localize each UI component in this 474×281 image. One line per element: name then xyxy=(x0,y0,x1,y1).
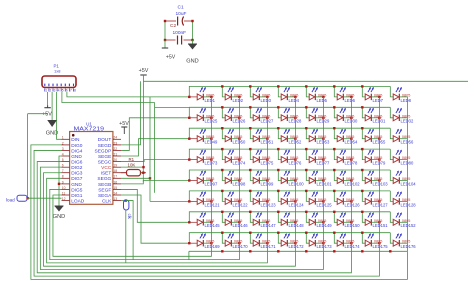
svg-text:0805: 0805 xyxy=(318,93,326,97)
svg-text:LED100: LED100 xyxy=(289,181,305,186)
wire rail drop row 4 col 5 xyxy=(306,149,309,160)
wire rail drop row 4 col 6 xyxy=(334,149,337,160)
svg-text:LED124: LED124 xyxy=(289,202,305,207)
junction column 6 row 5 xyxy=(350,179,352,181)
LED LED100 xyxy=(281,171,295,184)
svg-text:LED147: LED147 xyxy=(261,223,277,228)
LED LED104 xyxy=(393,171,407,184)
svg-text:GND: GND xyxy=(53,214,65,220)
LED LED152 xyxy=(393,212,407,225)
junction column 2 row 6 xyxy=(238,200,240,202)
svg-text:22: 22 xyxy=(113,147,117,151)
svg-text:LED125: LED125 xyxy=(317,202,333,207)
junction column 7 row 8 xyxy=(378,242,380,244)
svg-text:0805: 0805 xyxy=(234,156,242,160)
wire rail drop row 4 col 7 xyxy=(362,149,365,160)
junction column 4 row 5 xyxy=(294,179,296,181)
wire column 5 cathode line xyxy=(322,97,324,251)
wire U1 GND pin9 xyxy=(59,183,62,185)
wire rail drop row 6 col 6 xyxy=(334,191,337,202)
svg-text:0805: 0805 xyxy=(206,198,214,202)
junction rail row 1 col 3 xyxy=(249,85,251,87)
wire row 6 feed xyxy=(150,200,189,202)
LED LED73 xyxy=(189,150,211,163)
wire to +5V (cap block) xyxy=(164,40,166,48)
wire matrix bottom line xyxy=(189,250,408,252)
wire rail drop row 5 col 7 xyxy=(362,170,365,181)
svg-text:DIN: DIN xyxy=(71,137,80,143)
svg-text:0805: 0805 xyxy=(318,177,326,181)
junction column 1 row 5 xyxy=(210,179,212,181)
wire CLK to connector xyxy=(121,200,126,202)
svg-text:0805: 0805 xyxy=(402,177,410,181)
svg-text:1: 1 xyxy=(62,136,64,140)
junction bottom line col 2 xyxy=(221,250,223,252)
LED LED29 xyxy=(309,108,323,121)
node row 3 anode rail xyxy=(189,128,390,139)
junction load net xyxy=(26,197,28,199)
svg-text:0805: 0805 xyxy=(318,156,326,160)
junction rail row 4 col 7 xyxy=(361,148,363,150)
junction rail row 8 col 5 xyxy=(305,232,307,234)
junction column 5 row 1 xyxy=(322,96,324,98)
junction R1 ISET net xyxy=(142,172,144,174)
svg-text:0805: 0805 xyxy=(206,93,214,97)
junction cap top-left xyxy=(164,20,166,22)
node row 4 anode rail xyxy=(189,149,390,160)
svg-text:15: 15 xyxy=(113,186,117,190)
LED LED126 xyxy=(337,191,351,204)
junction rail row 4 col 3 xyxy=(249,148,251,150)
node row 2 anode rail xyxy=(189,107,390,118)
LED LED4 xyxy=(281,87,295,100)
wire P1 pin2 to GND xyxy=(51,92,53,121)
wire rail drop row 6 col 3 xyxy=(250,191,253,202)
svg-text:6: 6 xyxy=(62,164,64,168)
svg-text:13: 13 xyxy=(113,197,117,201)
connector P1 xyxy=(42,76,76,88)
LED LED26 xyxy=(225,108,239,121)
junction rail row 8 col 7 xyxy=(361,232,363,234)
svg-text:LED123: LED123 xyxy=(261,202,277,207)
svg-text:0805: 0805 xyxy=(402,156,410,160)
wire rail drop row 1 col 2 xyxy=(222,86,225,97)
svg-text:0805: 0805 xyxy=(290,114,298,118)
junction SEGG channel xyxy=(149,177,151,179)
svg-text:1x8: 1x8 xyxy=(54,69,61,74)
svg-text:0805: 0805 xyxy=(346,93,354,97)
svg-text:LED101: LED101 xyxy=(317,181,333,186)
junction row 2 feed xyxy=(188,117,190,119)
wire rail drop row 1 col 4 xyxy=(278,86,281,97)
wire P1 pin5 to row 1 feed xyxy=(67,92,189,97)
junction column 2 row 1 xyxy=(238,96,240,98)
svg-text:0805: 0805 xyxy=(234,93,242,97)
junction rail row 8 col 3 xyxy=(249,232,251,234)
LED LED171 xyxy=(253,233,267,246)
svg-text:0805: 0805 xyxy=(346,198,354,202)
junction column 3 row 2 xyxy=(266,117,268,119)
wire C2 bottom rail right xyxy=(184,39,193,41)
svg-text:4: 4 xyxy=(62,152,64,156)
junction rail row 1 col 6 xyxy=(333,85,335,87)
svg-text:GND: GND xyxy=(186,59,198,65)
node row 8 anode rail xyxy=(189,233,390,244)
wire DIG net 2 (U1 to matrix column) xyxy=(37,162,351,273)
wire SEGF net to row 7 xyxy=(121,189,189,222)
connector load xyxy=(17,195,27,201)
svg-text:0805: 0805 xyxy=(290,177,298,181)
svg-text:21: 21 xyxy=(113,152,117,156)
svg-text:0805: 0805 xyxy=(290,135,298,139)
svg-text:LOAD: LOAD xyxy=(71,199,85,205)
svg-text:0805: 0805 xyxy=(374,135,382,139)
junction rail row 1 col 5 xyxy=(305,85,307,87)
svg-text:0805: 0805 xyxy=(262,198,270,202)
junction row 7 feed xyxy=(188,221,190,223)
LED LED102 xyxy=(337,171,351,184)
wire SEGE net to row 3 xyxy=(121,139,189,156)
wire rail drop row 8 col 3 xyxy=(250,233,253,244)
LED LED1 xyxy=(189,87,211,100)
junction VCC +5V xyxy=(142,166,144,168)
node row 5 anode rail xyxy=(189,170,390,181)
svg-text:0805: 0805 xyxy=(346,156,354,160)
junction row 5 feed xyxy=(188,179,190,181)
wire rail drop row 4 col 8 xyxy=(390,149,393,160)
svg-text:LED8: LED8 xyxy=(401,98,412,103)
svg-text:LED169: LED169 xyxy=(205,244,221,249)
svg-text:SEGF: SEGF xyxy=(98,187,111,193)
svg-text:3: 3 xyxy=(54,89,56,93)
LED LED169 xyxy=(189,233,211,246)
svg-text:3: 3 xyxy=(62,147,64,151)
junction column 7 row 3 xyxy=(378,138,380,140)
junction rail row 5 col 6 xyxy=(333,169,335,171)
LED LED149 xyxy=(309,212,323,225)
svg-text:0805: 0805 xyxy=(206,177,214,181)
junction column 6 row 8 xyxy=(350,242,352,244)
svg-text:7: 7 xyxy=(62,169,64,173)
junction column 6 row 4 xyxy=(350,158,352,160)
wire to GND (cap block) xyxy=(192,40,194,44)
svg-text:LED102: LED102 xyxy=(345,181,361,186)
svg-text:0805: 0805 xyxy=(234,198,242,202)
wire rail drop row 3 col 7 xyxy=(362,128,365,139)
wire rail drop row 8 col 4 xyxy=(278,233,281,244)
svg-text:SEGA: SEGA xyxy=(98,193,112,199)
svg-text:LED175: LED175 xyxy=(373,244,389,249)
junction GND net xyxy=(58,183,60,185)
junction rail row 4 col 2 xyxy=(221,148,223,150)
LED LED170 xyxy=(225,233,239,246)
svg-text:0805: 0805 xyxy=(262,219,270,223)
junction rail row 6 col 3 xyxy=(249,190,251,192)
svg-text:2: 2 xyxy=(50,89,52,93)
wire channel extra vertical xyxy=(154,103,156,193)
resistor R1 xyxy=(121,170,146,176)
wire column 2 cathode line xyxy=(238,97,240,251)
junction rail row 8 col 6 xyxy=(333,232,335,234)
LED LED97 xyxy=(189,171,211,184)
wire +5V down to VCC xyxy=(143,81,145,166)
wire VCC to +5V xyxy=(121,166,144,168)
LED LED25 xyxy=(189,108,211,121)
capacitor C1 xyxy=(178,17,184,26)
LED LED128 xyxy=(393,191,407,204)
svg-text:LED5: LED5 xyxy=(317,98,328,103)
junction rail row 5 col 5 xyxy=(305,169,307,171)
wire DIG net 6 (U1 to matrix column) xyxy=(50,189,240,259)
wire rail drop row 2 col 8 xyxy=(390,107,393,118)
junction column 1 row 1 xyxy=(210,96,212,98)
svg-text:LED151: LED151 xyxy=(373,223,389,228)
svg-text:0805: 0805 xyxy=(290,240,298,244)
LED LED173 xyxy=(309,233,323,246)
svg-text:DIG1: DIG1 xyxy=(71,193,83,199)
wire rail drop row 8 col 5 xyxy=(306,233,309,244)
junction column 7 row 5 xyxy=(378,179,380,181)
svg-text:LED171: LED171 xyxy=(261,244,277,249)
junction rail row 2 col 5 xyxy=(305,106,307,108)
wire SEGG stub to channel xyxy=(121,177,150,179)
svg-text:2: 2 xyxy=(62,141,64,145)
svg-text:0805: 0805 xyxy=(206,219,214,223)
svg-text:100nF: 100nF xyxy=(173,30,187,36)
LED LED2 xyxy=(225,87,239,100)
wire rail drop row 7 col 7 xyxy=(362,212,365,223)
wire rail drop row 7 col 3 xyxy=(250,212,253,223)
LED LED31 xyxy=(365,108,379,121)
junction column 6 row 3 xyxy=(350,138,352,140)
junction rail row 7 col 7 xyxy=(361,211,363,213)
junction rail row 6 col 7 xyxy=(361,190,363,192)
LED LED99 xyxy=(253,171,267,184)
wire DIG net 4 (U1 to matrix column) xyxy=(44,173,296,266)
junction cap top-right xyxy=(191,20,193,22)
svg-text:CLK: CLK xyxy=(102,199,112,205)
wire rail drop row 3 col 2 xyxy=(222,128,225,139)
junction column 5 row 8 xyxy=(322,242,324,244)
svg-text:LED121: LED121 xyxy=(205,202,221,207)
wire load net vertical xyxy=(27,114,29,199)
svg-text:0805: 0805 xyxy=(346,219,354,223)
junction CLK xyxy=(125,199,127,201)
svg-text:LED172: LED172 xyxy=(289,244,305,249)
svg-text:LED176: LED176 xyxy=(401,244,417,249)
svg-text:0805: 0805 xyxy=(262,135,270,139)
wire rail drop row 2 col 3 xyxy=(250,107,253,118)
svg-text:DOUT: DOUT xyxy=(98,137,112,143)
junction rail row 5 col 4 xyxy=(277,169,279,171)
junction row 4 feed xyxy=(188,158,190,160)
wire rail drop row 5 col 2 xyxy=(222,170,225,181)
svg-text:8: 8 xyxy=(62,175,64,179)
junction column 3 row 8 xyxy=(266,242,268,244)
wire rail drop row 6 col 8 xyxy=(390,191,393,202)
svg-text:0805: 0805 xyxy=(346,135,354,139)
svg-text:7: 7 xyxy=(70,89,72,93)
junction column 7 row 7 xyxy=(378,221,380,223)
LED LED151 xyxy=(365,212,379,225)
junction cap bottom-right xyxy=(191,39,193,41)
LED LED30 xyxy=(337,108,351,121)
svg-text:LED103: LED103 xyxy=(373,181,389,186)
junction column 2 row 8 xyxy=(238,242,240,244)
svg-text:0805: 0805 xyxy=(234,219,242,223)
wire column 3 cathode line xyxy=(266,97,268,251)
svg-text:0805: 0805 xyxy=(402,135,410,139)
junction rail row 6 col 2 xyxy=(221,190,223,192)
svg-text:0805: 0805 xyxy=(402,219,410,223)
svg-text:LED4: LED4 xyxy=(289,98,300,103)
svg-text:17: 17 xyxy=(113,175,117,179)
LED LED7 xyxy=(365,87,379,100)
LED LED147 xyxy=(253,212,267,225)
svg-text:LED122: LED122 xyxy=(233,202,249,207)
junction column 3 row 1 xyxy=(266,96,268,98)
svg-text:5: 5 xyxy=(62,158,64,162)
LED LED145 xyxy=(189,212,211,225)
wire rail drop row 2 col 2 xyxy=(222,107,225,118)
junction column 1 row 3 xyxy=(210,138,212,140)
LED LED53 xyxy=(309,129,323,142)
wire DIG net 5 (U1 to matrix column) xyxy=(47,178,268,263)
connector clk xyxy=(124,200,129,210)
svg-text:0805: 0805 xyxy=(234,114,242,118)
capacitor C2 xyxy=(178,36,182,45)
junction column 1 row 4 xyxy=(210,158,212,160)
junction rail row 4 col 4 xyxy=(277,148,279,150)
svg-text:GND: GND xyxy=(71,182,82,188)
svg-text:LED148: LED148 xyxy=(289,223,305,228)
junction rail row 2 col 6 xyxy=(333,106,335,108)
svg-text:0805: 0805 xyxy=(318,198,326,202)
junction rail row 7 col 3 xyxy=(249,211,251,213)
wire load to LOAD pin xyxy=(27,197,62,199)
node row 6 anode rail xyxy=(189,191,390,202)
junction column 4 row 3 xyxy=(294,138,296,140)
junction column 4 row 2 xyxy=(294,117,296,119)
LED LED32 xyxy=(393,108,407,121)
wire SEGA net to row 8 xyxy=(121,195,189,243)
svg-text:20: 20 xyxy=(113,158,117,162)
junction rail row 2 col 3 xyxy=(249,106,251,108)
wire column 8 cathode line xyxy=(406,97,408,251)
wire rail drop row 3 col 8 xyxy=(390,128,393,139)
LED LED5 xyxy=(309,87,323,100)
svg-text:SEGE: SEGE xyxy=(98,154,111,160)
wire +5V rail to right edge xyxy=(144,75,469,81)
wire rail drop row 4 col 4 xyxy=(278,149,281,160)
ground (P1) xyxy=(46,121,58,137)
svg-text:23: 23 xyxy=(113,141,117,145)
wire P1 pin1 to +5V xyxy=(47,92,49,105)
LED LED172 xyxy=(281,233,295,246)
LED LED123 xyxy=(253,191,267,204)
svg-text:0805: 0805 xyxy=(374,156,382,160)
svg-text:ISET: ISET xyxy=(101,171,112,177)
junction column 5 row 3 xyxy=(322,138,324,140)
svg-text:0805: 0805 xyxy=(262,156,270,160)
LED LED3 xyxy=(253,87,267,100)
junction rail row 1 col 7 xyxy=(361,85,363,87)
wire SEGDP net to row 2 xyxy=(121,118,189,151)
junction row 1 feed xyxy=(188,96,190,98)
wire rail drop row 5 col 3 xyxy=(250,170,253,181)
junction column 2 row 4 xyxy=(238,158,240,160)
svg-text:LED126: LED126 xyxy=(345,202,361,207)
junction rail row 5 col 7 xyxy=(361,169,363,171)
wire rail drop row 6 col 2 xyxy=(222,191,225,202)
wire channel vertical (P1/row6) xyxy=(149,97,151,201)
wire rail drop row 1 col 8 xyxy=(390,86,393,97)
wire rail drop row 6 col 5 xyxy=(306,191,309,202)
svg-text:0805: 0805 xyxy=(206,135,214,139)
svg-text:SEGDP: SEGDP xyxy=(95,148,112,154)
LED LED75 xyxy=(253,150,267,163)
wire GND vertical (cap block right) xyxy=(192,21,194,40)
wire rail drop row 5 col 8 xyxy=(390,170,393,181)
wire rail drop row 4 col 3 xyxy=(250,149,253,160)
svg-text:C2: C2 xyxy=(170,23,176,29)
junction column 2 row 2 xyxy=(238,117,240,119)
wire DIG net 7 (U1 to matrix column) xyxy=(53,195,211,256)
junction column 4 row 7 xyxy=(294,221,296,223)
wire column 6 cathode line xyxy=(350,97,352,251)
LED LED122 xyxy=(225,191,239,204)
svg-text:14: 14 xyxy=(113,191,117,195)
svg-text:0805: 0805 xyxy=(402,240,410,244)
wire rail drop row 1 col 5 xyxy=(306,86,309,97)
junction rail row 8 col 4 xyxy=(277,232,279,234)
LED LED103 xyxy=(365,171,379,184)
wire rail drop row 3 col 4 xyxy=(278,128,281,139)
wire rail drop row 5 col 5 xyxy=(306,170,309,181)
wire rail drop row 2 col 6 xyxy=(334,107,337,118)
junction rail row 3 col 7 xyxy=(361,127,363,129)
wire SEGC net to row 4 xyxy=(121,160,189,162)
junction rail row 3 col 3 xyxy=(249,127,251,129)
LED LED51 xyxy=(253,129,267,142)
svg-text:LED174: LED174 xyxy=(345,244,361,249)
junction column 4 row 8 xyxy=(294,242,296,244)
junction bottom line col 3 xyxy=(249,250,251,252)
wire rail drop row 5 col 4 xyxy=(278,170,281,181)
svg-text:0805: 0805 xyxy=(374,177,382,181)
junction column 4 row 4 xyxy=(294,158,296,160)
LED LED74 xyxy=(225,150,239,163)
junction bottom line col 7 xyxy=(361,250,363,252)
svg-text:0805: 0805 xyxy=(290,93,298,97)
LED LED76 xyxy=(281,150,295,163)
wire load net horizontal under +5V xyxy=(28,113,48,115)
svg-text:0805: 0805 xyxy=(206,240,214,244)
node row 7 anode rail xyxy=(189,212,390,223)
junction rail row 5 col 3 xyxy=(249,169,251,171)
svg-text:0805: 0805 xyxy=(346,240,354,244)
svg-text:0805: 0805 xyxy=(374,114,382,118)
junction rail row 3 col 6 xyxy=(333,127,335,129)
svg-text:SEGG: SEGG xyxy=(97,176,111,182)
junction column 3 row 3 xyxy=(266,138,268,140)
svg-text:11: 11 xyxy=(62,191,66,195)
LED LED52 xyxy=(281,129,295,142)
svg-text:+5V: +5V xyxy=(166,55,176,61)
svg-text:DIG6: DIG6 xyxy=(71,160,83,166)
svg-text:LED146: LED146 xyxy=(233,223,249,228)
wire C2 bottom rail left xyxy=(165,39,176,41)
